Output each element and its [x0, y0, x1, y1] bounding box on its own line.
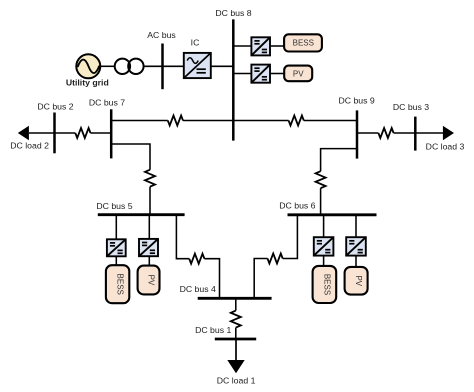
DC load 2 arrow [18, 126, 55, 140]
svg-text:PV: PV [354, 275, 363, 286]
converter U2 (DC-DC) [251, 37, 270, 55]
converter U3 (DC-DC) [251, 65, 270, 83]
wire DC bus 8 to R3 [233, 120, 288, 122]
svg-text:PV: PV [293, 69, 304, 78]
resistor R2 [168, 116, 183, 126]
DC bus 8 [232, 19, 235, 140]
BESS B2 [106, 265, 129, 303]
wire AC bus to IC [163, 65, 184, 67]
resistor R1 [75, 128, 90, 138]
svg-text:BESS: BESS [116, 274, 125, 295]
wire DC bus 5 to converter U5 [148, 215, 150, 239]
transformer T1 [115, 59, 144, 74]
wire R7 to DC bus 4 [204, 259, 219, 299]
wire converter U6 to BESS B3 [323, 256, 325, 266]
svg-text:Utility grid: Utility grid [66, 77, 109, 87]
wire converter U3 to PV P1 [271, 73, 284, 75]
DC bus 6 [288, 213, 377, 216]
converter U5 (DC-DC) [139, 239, 158, 256]
wire transformer to AC bus [144, 65, 163, 67]
wire R4 to DC bus 3 [394, 132, 416, 134]
svg-text:DC load 3: DC load 3 [426, 142, 465, 152]
svg-text:DC bus 3: DC bus 3 [393, 102, 429, 112]
svg-text:DC bus 2: DC bus 2 [37, 101, 73, 111]
svg-text:BESS: BESS [293, 39, 314, 48]
svg-text:PV: PV [147, 275, 156, 286]
DC bus 9 [356, 110, 359, 158]
wire DC bus 7 to R2 [111, 120, 168, 122]
DC bus 1 [215, 338, 256, 341]
BESS B1 [284, 34, 322, 51]
wire converter U5 to PV P2 [148, 256, 150, 265]
svg-text:DC bus 4: DC bus 4 [180, 284, 216, 294]
wire R9 to DC bus 1 [235, 328, 237, 339]
wire R1 to DC bus 7 [91, 132, 112, 134]
AC bus [161, 44, 164, 90]
DC load 3 arrow [415, 126, 454, 140]
wire DC bus 5 to converter U4 [115, 215, 117, 240]
wire DC bus 6 to converter U6 [323, 215, 325, 237]
wire DC bus 9 to R6 [321, 149, 357, 172]
resistor R5 [145, 170, 155, 187]
wire DC bus 9 to R4 [357, 132, 378, 134]
DC bus 4 [198, 297, 272, 300]
wire DC bus 6 to converter U7 [355, 215, 357, 237]
svg-text:BESS: BESS [322, 274, 331, 295]
resistor R7 [189, 254, 204, 264]
svg-text:DC bus 5: DC bus 5 [96, 201, 132, 211]
DC bus 2 [53, 113, 56, 154]
wire DC bus 6 to R8 [283, 215, 298, 259]
wire R6 to DC bus 6 [320, 188, 322, 215]
svg-text:DC load 1: DC load 1 [217, 375, 256, 385]
PV P2 [138, 266, 160, 295]
resistor R3 [289, 116, 304, 126]
svg-text:AC bus: AC bus [147, 30, 176, 40]
wire R8 to DC bus 4 [254, 259, 267, 299]
resistor R4 [378, 128, 393, 138]
converter IC (AC-DC) [184, 53, 211, 78]
svg-text:IC: IC [191, 37, 200, 47]
svg-text:DC bus 8: DC bus 8 [215, 8, 251, 18]
converter U4 (DC-DC) [107, 239, 126, 256]
svg-text:DC bus 6: DC bus 6 [279, 201, 315, 211]
wire IC to DC bus 8 [211, 65, 234, 67]
DC bus 5 [98, 213, 185, 216]
wire R5 to DC bus 5 [149, 187, 151, 215]
PV P3 [345, 267, 368, 295]
PV P1 [284, 66, 312, 82]
utility grid source G1 [76, 54, 100, 78]
wire DC bus 7 to R5 [111, 144, 150, 170]
converter U7 (DC-DC) [346, 237, 366, 255]
svg-text:DC load 2: DC load 2 [10, 141, 49, 151]
wire utility grid to transformer [100, 65, 115, 67]
DC load 1 arrow [227, 339, 244, 373]
wire DC bus 5 to R7 [176, 215, 189, 259]
wire DC bus 4 to R9 [235, 298, 237, 310]
svg-text:DC bus 9: DC bus 9 [338, 96, 374, 106]
resistor R8 [268, 254, 283, 264]
DC bus 7 [110, 109, 113, 158]
svg-text:DC bus 7: DC bus 7 [89, 98, 125, 108]
BESS B3 [313, 266, 337, 303]
svg-text:DC bus 1: DC bus 1 [195, 325, 231, 335]
wire converter U4 to BESS B2 [115, 256, 117, 265]
resistor R6 [316, 171, 326, 188]
wire R3 to DC bus 9 [304, 120, 357, 122]
wire DC bus 8 to converter U3 [233, 73, 251, 75]
converter U6 (DC-DC) [314, 237, 334, 255]
wire DC bus 2 to R1 [55, 132, 76, 134]
resistor R9 [231, 311, 241, 328]
wire converter U7 to PV P3 [355, 256, 357, 267]
DC bus 3 [414, 117, 417, 151]
wire converter U2 to BESS B1 [271, 45, 284, 47]
wire DC bus 8 to converter U2 [233, 45, 251, 47]
wire R2 to DC bus 8 [183, 120, 233, 122]
